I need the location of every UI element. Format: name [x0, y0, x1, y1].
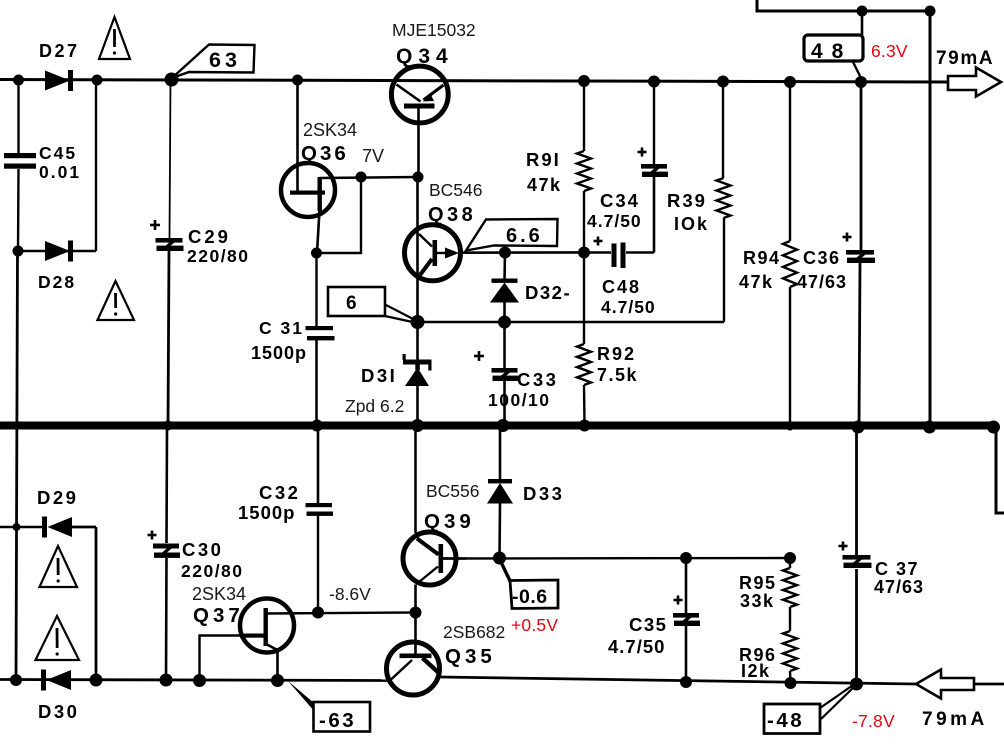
svg-text:47/63: 47/63 — [797, 272, 847, 292]
node top stub corner — [925, 6, 936, 17]
wire Q38 emitter row — [458, 251, 584, 254]
node rail R91 — [578, 75, 590, 87]
resistor R95 — [789, 558, 791, 568]
diode D27 — [45, 71, 70, 91]
svg-text:BC556: BC556 — [426, 481, 480, 501]
capacitor C37 — [855, 429, 858, 555]
node bus C33-D33 — [497, 419, 510, 432]
svg-text:48: 48 — [811, 40, 852, 63]
node base-D32 — [498, 316, 511, 329]
svg-text:Q39: Q39 — [424, 510, 475, 533]
label flag -63 — [288, 681, 315, 712]
svg-text:6.6: 6.6 — [506, 225, 543, 247]
svg-text:R92: R92 — [597, 344, 636, 364]
wire bottom rail far right — [974, 683, 1004, 686]
node rail bottom left — [10, 674, 22, 686]
capacitor C31 — [315, 253, 317, 326]
node bus C36-C37 — [852, 421, 865, 434]
capacitor C32 — [317, 429, 320, 503]
capacitor C29 — [170, 80, 171, 238]
node rail D30 right — [90, 674, 103, 687]
svg-text:D32-: D32- — [525, 282, 571, 303]
node bus R92 — [579, 420, 591, 432]
svg-text:C30: C30 — [182, 539, 223, 560]
svg-text:D27: D27 — [39, 41, 80, 61]
svg-text:-0.6: -0.6 — [512, 586, 548, 608]
resistor R39 — [722, 82, 724, 179]
svg-text:Zpd 6.2: Zpd 6.2 — [345, 396, 404, 416]
capacitor C48 — [584, 251, 611, 254]
svg-text:C 31: C 31 — [259, 318, 304, 338]
svg-text:R95: R95 — [739, 573, 777, 593]
node -8.6V Q39 — [410, 607, 422, 619]
node D33 bottom — [493, 552, 506, 565]
svg-text:C32: C32 — [259, 482, 300, 503]
node top stub junction — [857, 6, 868, 17]
wire right vertical 48V — [929, 11, 932, 427]
node emitter-R9192 — [578, 247, 590, 259]
capacitor C45 — [17, 80, 19, 153]
svg-text:4.7/50: 4.7/50 — [587, 211, 642, 231]
node rail C37 — [850, 678, 863, 691]
node rail R96 — [785, 677, 797, 689]
svg-text:Q34: Q34 — [396, 45, 454, 68]
svg-text:C48: C48 — [602, 277, 641, 297]
wire base row — [418, 321, 725, 323]
node R95 top — [784, 552, 796, 564]
svg-text:R39: R39 — [667, 190, 707, 211]
svg-text:D28: D28 — [38, 272, 76, 292]
node bus C29-C30 — [163, 421, 173, 431]
svg-text:0.01: 0.01 — [39, 162, 81, 182]
svg-text:47/63: 47/63 — [874, 577, 924, 597]
node 63 junction — [165, 73, 179, 87]
svg-text:220/80: 220/80 — [181, 561, 244, 581]
zener D31 — [416, 322, 419, 360]
bus 0V — [0, 422, 996, 430]
node rail Q37 gate — [193, 674, 206, 687]
capacitor C36 — [860, 82, 863, 250]
svg-text:100/10: 100/10 — [488, 390, 551, 410]
svg-text:79mA: 79mA — [922, 709, 988, 730]
svg-text:Q35: Q35 — [445, 645, 496, 668]
label box -0.6 — [500, 560, 511, 583]
wire R39 riser — [723, 218, 725, 322]
wire left column — [16, 251, 18, 680]
svg-text:C29: C29 — [188, 226, 231, 247]
resistor R96 — [783, 631, 797, 671]
node bus C31-C32 — [311, 420, 323, 432]
svg-text:D29: D29 — [37, 487, 78, 508]
node rail Q37 source — [271, 674, 284, 687]
svg-text:-48: -48 — [767, 709, 804, 732]
label box 48 — [804, 35, 863, 61]
transistor Q36 2SK34 — [281, 163, 335, 217]
svg-text:IOk: IOk — [674, 214, 709, 234]
wire bottom rail left — [0, 680, 388, 681]
svg-text:Q38: Q38 — [428, 204, 476, 226]
diode D28 — [18, 250, 96, 252]
node rail C30 — [160, 674, 173, 687]
svg-text:R9I: R9I — [526, 149, 561, 170]
node Q38 base — [411, 315, 425, 329]
node 7V right — [413, 172, 424, 183]
diode D32 — [503, 253, 506, 282]
warning triangle upper-mid — [98, 281, 135, 320]
node C35 top — [680, 552, 692, 564]
node rail C35 — [680, 676, 692, 688]
capacitor C33 — [503, 322, 506, 368]
label flag 6 — [328, 287, 385, 316]
capacitor C35 — [685, 558, 688, 613]
node bus 48V line — [923, 421, 936, 434]
transistor Q37 2SK34 — [240, 599, 294, 653]
svg-text:33k: 33k — [740, 591, 775, 611]
node rail left junction — [13, 75, 24, 86]
label flag 63 — [172, 45, 255, 79]
svg-text:C33: C33 — [517, 369, 558, 390]
node Q36 drain rail — [292, 75, 303, 86]
svg-text:+0.5V: +0.5V — [511, 615, 558, 635]
node emitter-D32 — [499, 247, 511, 259]
node 7V left — [356, 172, 367, 183]
node rail R39 — [717, 76, 729, 88]
svg-text:C 37: C 37 — [875, 559, 919, 579]
svg-text:C45: C45 — [39, 143, 77, 163]
resistor R94 — [789, 82, 791, 241]
node D28 left — [13, 246, 24, 257]
svg-text:63: 63 — [209, 48, 241, 72]
svg-text:6.3V: 6.3V — [871, 41, 908, 61]
diode D29 — [0, 526, 43, 528]
svg-text:Q36: Q36 — [301, 142, 349, 165]
node C32 bottom — [312, 607, 324, 619]
node bus D31 — [411, 419, 424, 432]
svg-text:220/80: 220/80 — [187, 246, 250, 266]
svg-text:4.7/50: 4.7/50 — [608, 636, 665, 657]
svg-text:R94: R94 — [743, 248, 781, 268]
svg-text:D30: D30 — [38, 701, 79, 722]
svg-text:47k: 47k — [739, 272, 774, 292]
wire Q36 source link — [316, 177, 361, 253]
svg-text:I2k: I2k — [741, 661, 771, 681]
resistor R91 — [583, 81, 585, 151]
arrow output top right — [948, 68, 1001, 97]
transistor Q34 MJE15032 — [391, 66, 448, 123]
svg-text:Q37: Q37 — [193, 604, 244, 627]
node rail C36 — [855, 76, 867, 88]
transistor Q38 BC546 — [416, 177, 419, 322]
wire 7V node — [320, 177, 419, 178]
svg-text:D33: D33 — [523, 483, 564, 504]
diode D33 — [499, 430, 502, 482]
svg-text:C36: C36 — [803, 248, 841, 268]
capacitor C30 — [165, 429, 168, 543]
svg-text:MJE15032: MJE15032 — [392, 20, 476, 40]
node bus R94 — [786, 423, 794, 431]
svg-text:2SK34: 2SK34 — [192, 584, 246, 604]
svg-text:-63: -63 — [319, 709, 356, 732]
svg-text:7V: 7V — [362, 146, 384, 166]
warning triangle top — [99, 17, 130, 59]
svg-text:2SB682: 2SB682 — [443, 622, 505, 642]
wire 48 label drop — [861, 11, 864, 36]
svg-text:1500p: 1500p — [238, 502, 295, 523]
wire +63V top rail — [0, 80, 949, 83]
svg-text:BC546: BC546 — [429, 180, 483, 200]
diode D30 — [41, 670, 46, 691]
node rail C34 — [648, 76, 660, 88]
svg-text:7.5k: 7.5k — [597, 365, 638, 385]
svg-text:-7.8V: -7.8V — [852, 711, 895, 731]
wire Q39 emitter row — [443, 557, 790, 560]
svg-text:C34: C34 — [600, 190, 640, 211]
transistor Q39 BC556 — [414, 430, 417, 534]
label flag -48 — [764, 704, 820, 734]
label flag 6.6 — [466, 219, 558, 251]
warning triangle lower 1 — [40, 546, 78, 587]
svg-text:2SK34: 2SK34 — [303, 120, 357, 140]
resistor R92 — [583, 253, 585, 345]
svg-text:4.7/50: 4.7/50 — [601, 297, 656, 317]
svg-text:-8.6V: -8.6V — [329, 584, 371, 604]
node rail D27 right — [92, 75, 103, 86]
svg-text:C35: C35 — [629, 614, 667, 635]
svg-text:D3I: D3I — [361, 365, 397, 386]
node bus left — [12, 422, 20, 430]
wire bottom rail right — [440, 677, 917, 684]
node D29 cross — [13, 523, 21, 531]
svg-text:1500p: 1500p — [251, 343, 307, 363]
node Q36 source — [311, 248, 322, 259]
arrow output bottom — [916, 670, 974, 699]
svg-text:79mA: 79mA — [936, 48, 994, 69]
svg-text:6: 6 — [346, 293, 357, 314]
svg-text:47k: 47k — [527, 175, 562, 195]
node bus right end — [987, 421, 1000, 434]
transistor Q35 2SB682 — [387, 642, 440, 695]
node rail R94 — [784, 76, 796, 88]
wire -8.6V row — [266, 613, 416, 614]
capacitor C34 — [653, 82, 655, 165]
wire top-right stub — [757, 0, 931, 11]
warning triangle lower 2 — [36, 616, 80, 660]
